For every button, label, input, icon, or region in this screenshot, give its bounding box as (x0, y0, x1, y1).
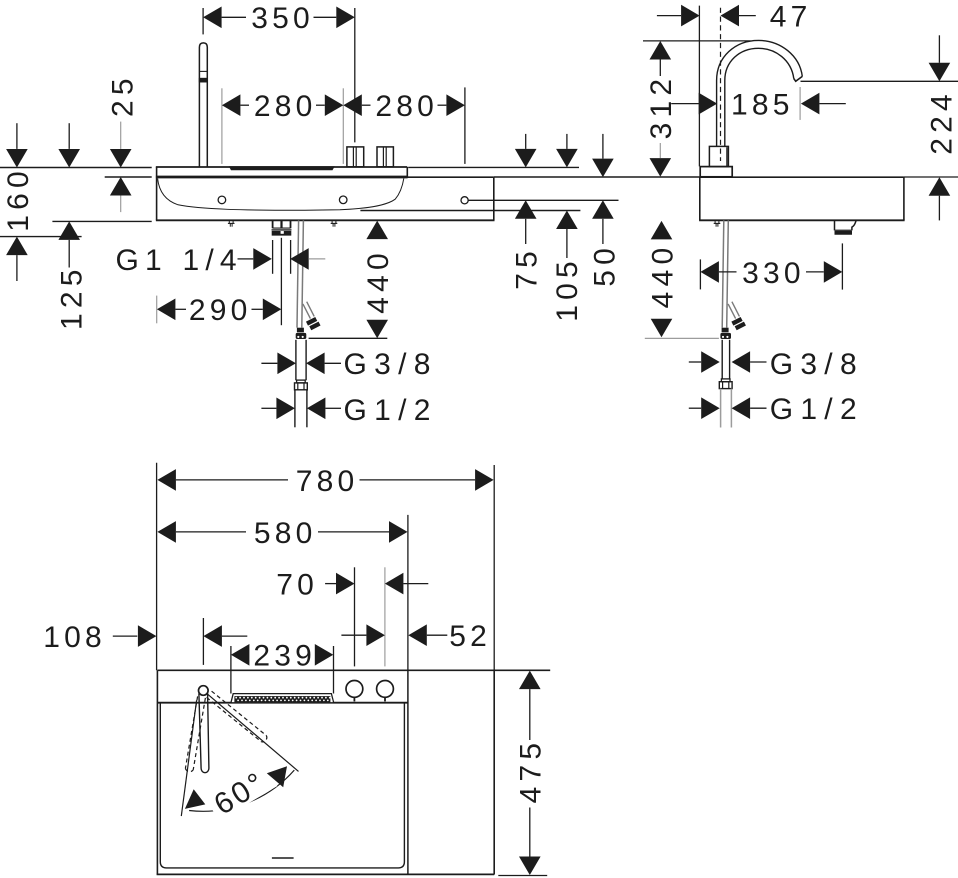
side view: spout centre line (dashed) (720, 8, 722, 161)
side view: body outline (700, 176, 904, 178)
svg-text:47: 47 (770, 1, 812, 34)
plan view: drain mark (272, 857, 294, 859)
svg-text:290: 290 (189, 294, 252, 327)
plan view: angular arrowhead at 60 position (267, 766, 287, 787)
front view: wall reference line (mounting level) (0, 167, 152, 169)
plan view: lever dashed swung 60 position (207, 697, 262, 741)
dim G3/8 side (689, 361, 701, 363)
440 front bottom reference line (309, 337, 388, 339)
plan view: outer left edge (156, 670, 158, 874)
side view: gooseneck spout outline (717, 40, 803, 146)
svg-text:G3/8: G3/8 (344, 348, 438, 381)
side view: spout escutcheon (709, 146, 728, 166)
front view: mounting hole centre (339, 196, 347, 204)
plan view: deck bottom line (157, 702, 408, 704)
dim G1/2 side (689, 407, 701, 409)
side view: supply hose (gray) (722, 220, 724, 327)
front view: deck underside reference line (25 below) (105, 176, 152, 178)
svg-text:75: 75 (511, 246, 544, 290)
svg-text:160: 160 (2, 166, 35, 232)
front view: joystick handle lever (199, 43, 207, 167)
front view: drain waste fitting under body (272, 220, 274, 228)
svg-text:580: 580 (254, 517, 317, 550)
dim 70 (knob spacing) (354, 567, 356, 666)
dim 125 (68, 123, 70, 149)
plan view: lever dashed left position (193, 698, 205, 770)
dim 75 (wall line to hole centre) (525, 134, 527, 149)
front view: G3/8 hose end fitting (297, 328, 304, 333)
side view: angled hose branch with connector (728, 304, 736, 319)
plan view: basin/shelf divider (407, 670, 409, 874)
side view: spout outlet face (794, 76, 803, 81)
plan view: outer right edge (493, 670, 495, 874)
plan view: 60 degree label with background (204, 761, 279, 824)
plan view: angular arrowhead at 0 position (185, 789, 205, 809)
dim G3/8 front (261, 362, 277, 364)
dim 580 (deck width) (407, 515, 409, 670)
dim 25 (deck thickness) (120, 122, 122, 149)
side view: fixing screw under body (714, 221, 716, 224)
svg-text:475: 475 (515, 738, 548, 804)
front view: hole centre leader line (468, 199, 618, 201)
dim 185 (spout centre to outlet) (671, 103, 699, 105)
plan view: angular dimension radial line left (181, 700, 196, 816)
svg-text:239: 239 (253, 640, 316, 673)
plan view: drain channel with grate (231, 694, 334, 703)
front view: G3/8 connection pipe (295, 340, 297, 381)
front view: G1/2 pipe (294, 390, 296, 427)
dim 239 (drain channel length) (230, 646, 232, 694)
plan view: angular dimension radial line right (206, 693, 299, 772)
side view: faucet base plate (700, 167, 732, 177)
svg-text:440: 440 (362, 248, 395, 314)
dim 312 (spout top to deck level) (650, 41, 672, 60)
plan view: lever pivot (199, 686, 209, 696)
front view: mounting hole right (461, 197, 468, 204)
plan view: knob circle 2 (377, 681, 394, 698)
front view: drain centre line (280, 238, 282, 325)
front view: wall line right of basin (408, 166, 579, 168)
svg-text:25: 25 (107, 73, 140, 117)
dim G1/2 front (261, 407, 276, 409)
svg-text:G1/2: G1/2 (344, 394, 438, 427)
side view: drain stub (834, 220, 836, 230)
front view: temperature knob 1 (347, 147, 364, 167)
dim 290 (left edge to drain centre) (156, 296, 158, 324)
dim 280 left (hole1 to hole2) (221, 88, 223, 164)
dim 160 (16, 123, 18, 149)
dim 105 (wall line to basin bottom) (566, 134, 568, 149)
front view: temperature knob 2 (377, 147, 393, 167)
side view: spout height reference line (801, 80, 958, 82)
front view: G1 1/4 extension line left (272, 240, 274, 274)
front view: G1 1/4 extension line right (290, 240, 292, 274)
svg-text:224: 224 (926, 89, 958, 155)
dim 440 front (body bottom to hose end) (366, 221, 388, 240)
dim 350 (lever centre to knob1 centre) (202, 8, 204, 34)
svg-text:G3/8: G3/8 (770, 348, 864, 381)
svg-text:440: 440 (646, 243, 679, 309)
plan view: lever swing arc (60 degrees) (189, 770, 294, 811)
svg-text:330: 330 (742, 257, 805, 290)
svg-text:185: 185 (731, 89, 794, 122)
front view: supply hose (gray) (297, 220, 299, 327)
svg-text:280: 280 (375, 90, 438, 123)
front view: fixing screw left under body (228, 221, 230, 224)
plan view: basin inner outline (160, 703, 404, 868)
front view: 160 reference line (0, 236, 82, 238)
dim 440 side (body bottom to hose end) (651, 221, 673, 240)
svg-text:125: 125 (55, 264, 88, 330)
plan view: outer top edge with 475 reference extension (157, 669, 550, 671)
dim 50 (deck underside to hole centre) (602, 134, 604, 159)
svg-text:70: 70 (276, 569, 318, 602)
svg-text:350: 350 (251, 2, 314, 35)
front view: mounting hole left (218, 196, 226, 204)
svg-text:280: 280 (254, 90, 317, 123)
side view: G1/2 pipe (720, 389, 722, 428)
front view: G1/2 union nut (297, 380, 306, 383)
svg-text:G1 1/4: G1 1/4 (116, 244, 243, 277)
svg-text:108: 108 (43, 621, 106, 654)
front view: drain slot (black strip on deck) (229, 166, 335, 170)
plan view: lever solid position (199, 693, 209, 772)
dim 780 (overall width) (156, 463, 158, 671)
dim 475 (overall depth) (519, 671, 541, 690)
svg-text:G1/2: G1/2 (770, 393, 864, 426)
front view: basin interior bottom reference line (105) (360, 210, 580, 212)
dim 330 (body edge to drain centre) (699, 259, 701, 289)
side view: G3/8 hose end fitting (722, 328, 729, 333)
plan view: outer bottom edge (157, 873, 495, 875)
front view: basin body outline (156, 167, 158, 221)
front view: angled hose branch with connector (303, 304, 311, 319)
svg-text:52: 52 (449, 620, 491, 653)
plan view: 475 bottom reference line (498, 875, 547, 877)
svg-text:105: 105 (551, 256, 584, 322)
dim 108 (edge to lever centre) (202, 618, 204, 665)
svg-text:780: 780 (296, 465, 359, 498)
side view: spout top reference line (643, 40, 751, 42)
dim 47 (base edge to spout centre) (698, 6, 700, 167)
dim 224 (outlet height above deck) (938, 35, 940, 63)
side view: G3/8 connection pipe (721, 340, 723, 379)
plan view: knob circle 1 (346, 681, 363, 698)
front view / side view: deck underside line extending right (494, 176, 700, 178)
side view: deck level line right of body (904, 176, 958, 178)
dim 280 right (hole2 to hole3) (464, 87, 466, 163)
front view: basin interior curve (158, 178, 404, 210)
svg-text:312: 312 (645, 74, 678, 140)
dim 52 (knob2 to divider) (341, 634, 366, 636)
440 side bottom reference line (645, 337, 719, 339)
svg-text:50: 50 (588, 243, 621, 287)
side view: G1/2 union nut (721, 379, 730, 382)
front view: 125 reference line (52, 220, 151, 222)
front view: fixing screw right under body (331, 221, 333, 224)
side view: drain centre extension line (841, 243, 843, 289)
